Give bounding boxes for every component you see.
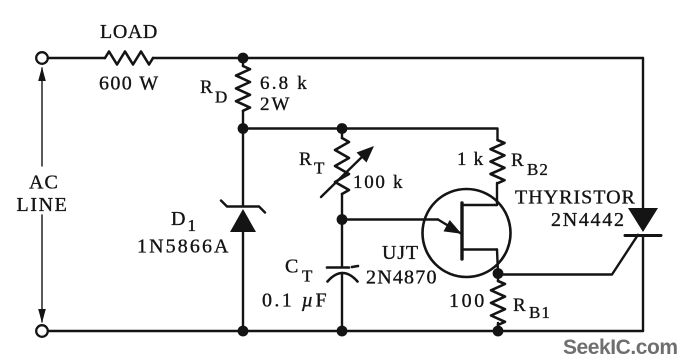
svg-text:B1: B1 [529,303,551,322]
svg-text:600 W: 600 W [99,73,160,95]
terminal T2 (AC line bottom) [36,325,48,337]
potentiometer RT 100k [299,129,404,220]
svg-text:T: T [302,267,313,286]
node F (D1 bottom) [238,326,249,337]
svg-text:0.1 µF: 0.1 µF [262,290,329,312]
svg-text:SeekIC.com: SeekIC.com [563,336,678,359]
svg-text:2N4870: 2N4870 [366,267,438,289]
zener diode D1 1N5866A [137,129,265,332]
node B (RD bottom, second rail) [238,123,249,134]
wire bottom rail [48,330,643,332]
svg-text:AC: AC [29,172,59,194]
svg-text:THYRISTOR: THYRISTOR [515,187,636,209]
wire gate (node G to thyristor gate) [498,235,638,275]
resistor LOAD 600 W [99,21,160,95]
wire top rail right [153,57,643,59]
svg-text:R: R [200,77,213,98]
wire top rail left [48,57,105,59]
svg-text:UJT: UJT [382,242,419,264]
capacitor CT 0.1 uF [262,220,358,332]
wire right rail [642,58,644,331]
svg-text:2W: 2W [260,94,291,115]
node G (B1 node) [493,268,504,279]
node H (RB1 bottom) [493,326,504,337]
wire node D to UJT emitter [342,218,438,220]
node C (top of RT) [337,123,348,134]
node E (CT bottom) [337,326,348,337]
svg-text:B2: B2 [527,160,549,179]
svg-text:100 k: 100 k [353,172,404,193]
svg-text:R: R [299,149,312,170]
svg-text:D: D [215,88,227,107]
svg-text:LINE: LINE [17,194,69,216]
node A (top of RD) [238,53,249,64]
svg-text:D: D [171,208,185,230]
svg-text:2N4442: 2N4442 [551,209,626,231]
svg-text:100: 100 [449,290,487,312]
svg-text:6.8 k: 6.8 k [260,73,309,94]
UJT 2N4870 [366,183,511,289]
AC LINE label and arrows [17,67,69,323]
svg-text:R: R [511,150,524,171]
terminal T1 (AC line top) [36,52,48,64]
svg-text:C: C [285,256,298,278]
svg-text:R: R [513,295,526,316]
svg-text:1N5866A: 1N5866A [137,236,231,258]
svg-text:1 k: 1 k [457,149,484,170]
resistor RB2 1k [457,140,549,183]
thyristor 2N4442 [515,187,661,236]
resistor RB1 100 [449,274,551,332]
node D (RT bottom / CT top) [337,214,348,225]
wire second rail [243,129,498,141]
svg-text:LOAD: LOAD [100,21,158,43]
resistor RD 6.8k 2W [200,58,309,129]
svg-text:T: T [314,159,325,178]
svg-text:1: 1 [188,216,197,235]
